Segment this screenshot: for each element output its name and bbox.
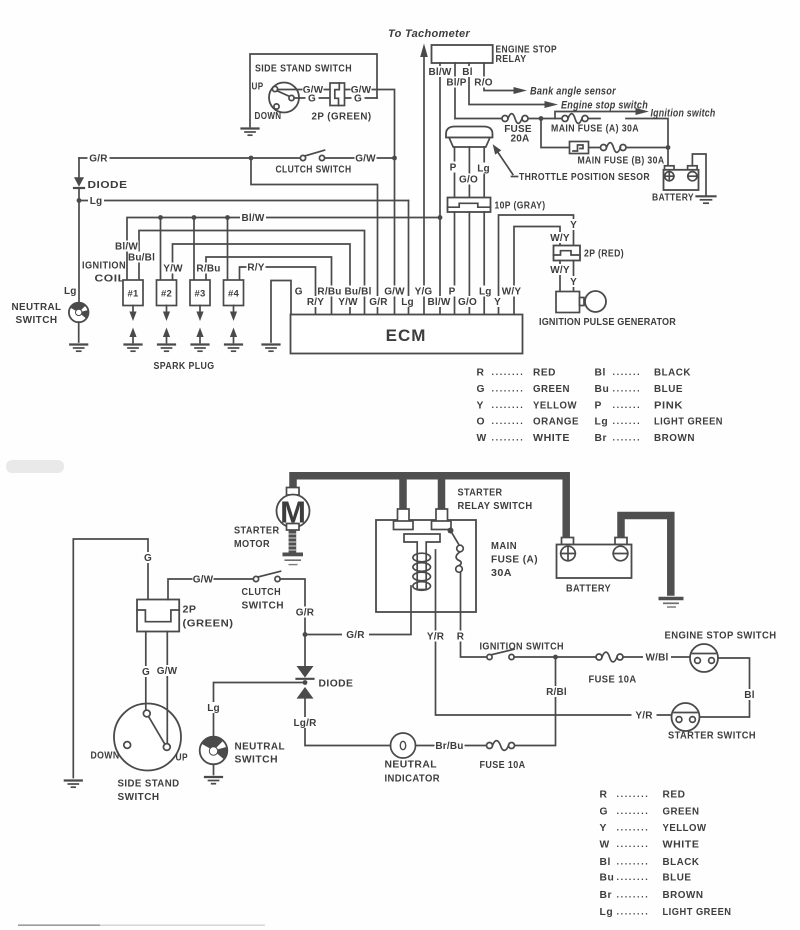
wire TPS G/O [468,147,470,198]
wire label Br/Bu [435,740,465,752]
wire label Lg bottom [205,702,222,714]
wire G from side stand to loop [294,97,377,99]
svg-text:Bu: Bu [595,384,610,395]
svg-text:O: O [477,417,486,428]
battery B2 (bottom) [557,538,632,579]
svg-text:20A: 20A [511,134,530,145]
svg-text:........: ........ [617,872,650,882]
svg-text:BLUE: BLUE [663,873,692,884]
svg-text:THROTTLE POSITION SESOR: THROTTLE POSITION SESOR [519,172,650,183]
ground starter motor shaft [283,530,304,565]
wire Bl/W bus to coils [127,218,440,281]
pin label Lg upper [477,286,493,298]
switch side stand switch (bottom) [114,704,181,771]
svg-text:........: ........ [492,367,525,377]
wire clutch switch to G/R junction [280,579,305,635]
ground side stand loop [242,129,259,136]
fuse MAIN FUSE (B) 30A holder box [570,142,589,154]
pin label Bl/W [427,296,451,308]
ECM box [291,315,523,354]
legend top Lg LIGHT GREEN [595,416,724,428]
pin label G/W [384,286,405,298]
wire coil4 R/Y to ECM [240,267,316,315]
wire label Bl/W coil1 [115,241,139,253]
wire label W/Bl [643,652,671,664]
svg-text:Br: Br [600,890,613,901]
legend bottom R RED [600,789,686,801]
ground ECM G [263,345,280,352]
switch neutral switch (bottom) [200,737,228,765]
label NEUTRAL SWITCH bottom [235,742,286,766]
legend bottom W WHITE [600,839,700,851]
connector 2P (GREEN) top [330,83,345,106]
svg-text:MAIN: MAIN [491,541,517,552]
svg-text:........: ........ [617,789,650,799]
svg-text:BLUE: BLUE [654,384,683,395]
svg-text:........: ........ [617,806,650,816]
pin label G/R [368,296,390,308]
wire coil2 Y/W to ECM [173,244,351,315]
svg-text:Lg: Lg [90,196,103,207]
svg-text:Lg: Lg [207,703,220,714]
svg-text:Bl: Bl [600,857,611,868]
pin label R/Bu [317,286,341,298]
fuse FUSE 20A [502,114,528,124]
legend top R RED [477,367,557,379]
svg-text:SIDE STAND: SIDE STAND [118,779,180,790]
svg-text:STARTER: STARTER [234,526,280,537]
wire label R/Y [247,262,266,274]
svg-text:SWITCH: SWITCH [235,755,279,766]
wire neutral switch to ground [213,764,215,774]
svg-text:W/Y: W/Y [502,287,522,298]
svg-text:#2: #2 [161,289,172,300]
fuse MAIN FUSE (B) 30A element [601,143,627,153]
wire G/R horizontal to clutch switch [79,157,301,159]
svg-text:P: P [449,287,456,298]
label MAIN FUSE (A) 30A [491,541,538,579]
svg-text:Bu/Bl: Bu/Bl [128,253,155,264]
wire ECM W/Y pin to 2P red [514,227,560,315]
label STARTER MOTOR [234,526,280,551]
svg-text:Y: Y [570,277,577,288]
relay: engine stop relay box [432,45,493,63]
svg-text:Bl/P: Bl/P [446,78,466,89]
svg-text:.......: ....... [613,367,642,377]
relay starter relay switch box [376,520,476,612]
wire thick drop to relay left post [399,478,407,510]
svg-text:(GREEN): (GREEN) [183,619,234,630]
wire neutral indicator to fuse [416,745,487,747]
sensor TPS throttle position sensor body [446,127,493,148]
svg-text:CLUTCH: CLUTCH [242,587,282,598]
switch clutch switch (top) [300,150,324,160]
wire Lg to neutral switch [214,683,306,737]
wire label Y upper [568,219,579,231]
svg-text:Bl/W: Bl/W [427,297,450,308]
switch side stand switch (top) [269,83,299,113]
svg-text:MAIN FUSE (B) 30A: MAIN FUSE (B) 30A [578,156,665,167]
svg-text:ORANGE: ORANGE [533,417,579,428]
svg-text:Y: Y [494,297,501,308]
svg-text:IGNITION SWITCH: IGNITION SWITCH [480,642,565,653]
relay core [404,534,440,590]
ignition coil #2 [157,280,177,306]
scan smudge artifact left [6,460,64,473]
wire ECM Y pin to 2P red [499,215,574,315]
svg-text:........: ........ [492,383,525,393]
legend top G GREEN [477,383,571,395]
svg-text:Y: Y [600,823,607,834]
wire Bl engine stop to starter switch [700,658,750,717]
label NEUTRAL INDICATOR [385,760,441,785]
svg-text:IGNITION PULSE GENERATOR: IGNITION PULSE GENERATOR [539,317,676,328]
spark plug 2 [158,306,175,352]
wire relay pin2 Bl/P down to fuse line [454,63,456,119]
diode D2 (bottom) [297,635,391,746]
wire thick battery positive run [293,476,566,538]
svg-text:BROWN: BROWN [663,890,704,901]
svg-text:RELAY: RELAY [496,54,527,65]
svg-text:G: G [308,94,316,105]
svg-text:Br/Bu: Br/Bu [435,741,463,752]
node junction R/Bl [553,655,558,660]
svg-text:FUSE 10A: FUSE 10A [480,760,526,771]
wire ECM G to ground [271,281,291,343]
svg-text:G: G [144,553,152,564]
svg-text:........: ........ [492,400,525,410]
svg-text:Lg: Lg [600,907,614,918]
wire 10P P to ECM [454,212,456,315]
svg-text:BLACK: BLACK [654,368,691,379]
legend bottom Br BROWN [600,889,704,901]
svg-text:W: W [600,840,610,851]
svg-text:Bu/Bl: Bu/Bl [344,287,371,298]
svg-text:ENGINE STOP SWITCH: ENGINE STOP SWITCH [665,631,777,642]
legend top O ORANGE [477,416,580,428]
pin label Y/G [414,286,434,298]
legend bottom Lg LIGHT GREEN [600,906,732,918]
wire label G left [306,93,319,105]
connector 2P (RED) [554,246,581,261]
pin label Y/W [338,296,358,308]
node junction clutch branch [249,156,254,161]
wire thick battery negative [621,516,671,596]
svg-text:G/W: G/W [193,575,214,586]
label CLUTCH SWITCH bottom [242,587,285,612]
wire 10P Lg to ECM [483,212,485,315]
svg-text:WHITE: WHITE [533,433,570,444]
relay coil [413,553,431,590]
svg-text:R/O: R/O [474,78,492,89]
switch engine stop switch [690,644,718,672]
fuse MAIN FUSE (A) 30A [562,114,588,124]
svg-text:........: ........ [617,856,650,866]
svg-text:R/Y: R/Y [307,297,324,308]
svg-text:BATTERY: BATTERY [652,193,694,204]
scan line artifact bottom [18,924,265,926]
pin label W/Y [501,286,523,298]
svg-text:Lg: Lg [477,164,490,175]
fuse FUSE 10A right [596,652,690,662]
svg-text:Br: Br [595,433,608,444]
wire label P [448,162,459,174]
wire ECM Lg pin [408,201,410,315]
node junction Bl/W bus [438,215,443,220]
svg-text:SPARK PLUG: SPARK PLUG [154,361,215,372]
svg-text:W/Y: W/Y [550,265,570,276]
wire label G/W right [351,84,372,96]
switch neutral switch (top) [69,303,89,323]
svg-text:........: ........ [617,889,650,899]
pin label R/O [474,77,493,89]
svg-text:NEUTRAL: NEUTRAL [235,742,286,753]
svg-text:ECM: ECM [386,326,427,345]
svg-text:Lg: Lg [595,417,609,428]
svg-text:PINK: PINK [654,401,683,412]
label FUSE 20A [504,124,532,145]
svg-text:R: R [600,790,608,801]
generator ignition pulse generator [556,291,606,313]
wire thick drop to relay right post [438,478,446,510]
svg-text:Y: Y [570,220,577,231]
switch ignition switch [487,649,596,659]
wire label G/W left [303,84,324,96]
legend bottom Bl BLACK [600,856,700,868]
svg-text:#4: #4 [228,289,239,300]
svg-text:BLACK: BLACK [663,857,700,868]
label NEUTRAL SWITCH [12,302,62,326]
label 2P (GREEN) bottom [183,605,234,630]
svg-text:#1: #1 [128,289,139,300]
wire clutch switch to G/W junction [325,157,395,159]
wire label Lg/R [292,717,319,729]
wire label R/Bl [546,686,568,698]
pin label Bl [460,66,475,78]
wire label Y/R horizontal [632,710,657,722]
lamp neutral indicator [391,733,416,758]
spark plug 4 [225,306,242,352]
relay right terminal post [432,509,452,530]
pin label Y lower [492,296,503,308]
wire label G/R vertical [294,607,316,619]
svg-text:........: ........ [617,823,650,833]
svg-text:G/W: G/W [384,287,405,298]
ignition coil #1 [123,280,143,306]
svg-text:W/Bl: W/Bl [645,653,668,664]
wire label Y/W [163,263,183,275]
wire label Lg [477,163,490,175]
wire label W/Y upper [549,232,571,244]
wire label Y lower [568,276,579,288]
wire ignition switch arrow [555,108,649,119]
wire coil1 Bu/Bl to ECM [139,231,365,315]
svg-text:.......: ....... [613,400,642,410]
node junction fuse branch [539,116,544,121]
svg-text:G/O: G/O [459,175,478,186]
ignition coil #4 [224,280,244,306]
pin label P [447,286,458,298]
svg-text:Bank angle sensor: Bank angle sensor [530,86,616,98]
svg-text:2P: 2P [183,605,197,616]
svg-text:Engine stop switch: Engine stop switch [561,100,648,112]
svg-text:G/R: G/R [296,608,315,619]
wire label G/R bottom [342,629,369,641]
wire relay pin4 R/O to bank angle sensor arrow [484,63,527,94]
wire label G side stand [140,666,153,678]
wire label G/W bottom [193,574,214,586]
wire 2P red Y to pulse generator [573,261,575,292]
switch starter switch [672,703,700,731]
label IGNITION COIL [82,261,126,285]
svg-text:G/W: G/W [157,666,178,677]
spark plug 1 [125,306,142,352]
svg-text:R/Bu: R/Bu [196,264,220,275]
svg-text:.......: ....... [613,433,642,443]
svg-text:W: W [477,433,487,444]
wire relay Y/R to starter switch [436,550,672,715]
pin label R/Y [306,296,325,308]
svg-text:30A: 30A [491,568,512,579]
svg-text:GREEN: GREEN [533,384,570,395]
wire relay pin1 Bl/W down to ECM [439,63,441,315]
svg-text:.......: ....... [613,383,642,393]
legend bottom Bu BLUE [600,872,692,884]
wire relay pin3 Bl to engine stop switch arrow [469,63,558,108]
svg-text:W/Y: W/Y [550,233,570,244]
svg-text:R: R [477,368,485,379]
wire label Bl [743,689,757,701]
throttle position sensor callout arrow [493,144,518,176]
wire label Y/R vertical [426,631,445,643]
node junction coil3 [192,215,197,220]
svg-text:P: P [450,163,457,174]
svg-text:Bl: Bl [462,67,472,78]
svg-text:G/W: G/W [355,154,376,165]
svg-text:DOWN: DOWN [91,751,120,762]
svg-text:........: ........ [492,433,525,443]
wire TPS Lg [483,147,485,198]
svg-text:SWITCH: SWITCH [16,315,58,326]
svg-text:FUSE (A): FUSE (A) [491,555,538,566]
wire side stand switch ground loop [250,54,377,127]
svg-text:........: ........ [617,906,650,916]
svg-text:G/R: G/R [369,297,388,308]
wire label Bu/Bl [128,252,155,264]
svg-text:10P (GRAY): 10P (GRAY) [495,201,546,212]
node junction battery feed [666,145,671,150]
svg-text:P: P [595,401,602,412]
pin label Bl/P [445,77,468,89]
svg-text:To Tachometer: To Tachometer [388,28,470,40]
legend top Br BROWN [595,433,696,445]
wire neutral switch to ground [78,322,80,342]
node junction coil2 [158,215,163,220]
wire coil3 R/Bu to ECM [206,257,332,315]
svg-text:BATTERY: BATTERY [566,584,611,595]
legend bottom G GREEN [600,806,700,818]
svg-text:.......: ....... [613,416,642,426]
wire label G/W side stand [156,665,178,677]
svg-text:........: ........ [617,839,650,849]
wire fuse feed line to battery [455,119,668,168]
wire TPS P [454,147,456,198]
wire label G/R [88,153,110,165]
svg-text:R/Y: R/Y [247,263,264,274]
wire G/W 2P to clutch switch [168,579,253,600]
wire relay coil to G/R [305,586,411,635]
svg-text:2P (GREEN): 2P (GREEN) [312,112,372,123]
svg-text:Bl/W: Bl/W [115,242,138,253]
pin label G/O [458,296,478,308]
svg-text:COIL: COIL [95,274,126,285]
svg-text:RED: RED [663,790,686,801]
wire R/Bl to bottom fuse [515,657,556,746]
svg-text:DIODE: DIODE [319,679,354,690]
svg-text:STARTER SWITCH: STARTER SWITCH [668,731,756,742]
label STARTER RELAY SWITCH [458,488,533,512]
svg-text:WHITE: WHITE [663,840,700,851]
svg-text:SIDE STAND SWITCH: SIDE STAND SWITCH [255,64,352,75]
svg-text:Bl: Bl [595,368,606,379]
svg-text:DIODE: DIODE [88,180,128,191]
svg-text:G/R: G/R [346,630,365,641]
svg-text:R/Bu: R/Bu [317,287,341,298]
svg-text:Y/W: Y/W [338,297,358,308]
svg-text:Y/G: Y/G [415,287,433,298]
svg-text:G: G [600,807,609,818]
wire label G/W [355,153,377,165]
connector 10P (GRAY) [448,198,491,213]
svg-text:DOWN: DOWN [255,111,282,122]
node junction coil4 [225,215,230,220]
svg-text:Bl/W: Bl/W [241,213,264,224]
svg-text:G: G [295,287,303,298]
svg-text:NEUTRAL: NEUTRAL [12,302,62,313]
svg-text:SWITCH: SWITCH [118,792,160,803]
svg-text:Bl/W: Bl/W [428,67,451,78]
node junction G/R bottom [303,632,308,637]
ignition coil #3 [190,280,210,306]
svg-text:GREEN: GREEN [663,807,700,818]
legend top W WHITE [477,433,571,445]
svg-text:G/R: G/R [89,154,108,165]
legend top P PINK [595,400,684,412]
legend top Y YELLOW [477,400,578,412]
pin label G [293,286,304,298]
wire label Lg [88,195,104,207]
svg-text:UP: UP [176,753,189,764]
svg-text:NEUTRAL: NEUTRAL [385,760,438,771]
motor starter motor [277,488,310,531]
wire relay R to ignition switch [461,572,488,657]
svg-text:R: R [457,632,465,643]
node junction G/W [392,156,397,161]
wire 2P red W/Y to pulse generator [559,261,561,292]
svg-text:G/O: G/O [458,297,477,308]
wire label R [455,631,466,643]
wire Lg bus [79,200,409,202]
svg-text:R/Bl: R/Bl [546,687,567,698]
wire G/W from side stand to junction [278,90,395,315]
ground battery negative [659,599,684,608]
switch clutch switch (bottom) [253,571,280,581]
svg-text:FUSE 10A: FUSE 10A [589,675,637,686]
svg-text:MOTOR: MOTOR [234,539,270,550]
wire G to side stand contact [145,632,147,711]
svg-text:LIGHT GREEN: LIGHT GREEN [654,417,723,428]
svg-text:YELLOW: YELLOW [533,401,577,412]
